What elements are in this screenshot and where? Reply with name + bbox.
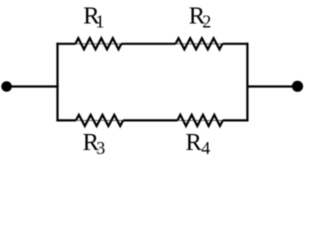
wire top: R2 to right rail bbox=[222, 43, 248, 45]
wire thin lead line under R1 bbox=[75, 43, 121, 45]
wire right stub from right rail to terminal bbox=[247, 85, 297, 87]
resistor R1 (zigzag) bbox=[75, 38, 121, 49]
node A (left terminal dot) bbox=[1, 81, 12, 92]
resistor R2 (zigzag) bbox=[176, 38, 223, 49]
wire top: between R1 and R2 bbox=[121, 43, 175, 45]
wire left stub from terminal to left rail bbox=[7, 85, 59, 87]
wire bottom: left rail to R3 bbox=[56, 119, 76, 121]
svg-text:R: R bbox=[186, 129, 203, 156]
svg-text:4: 4 bbox=[201, 138, 210, 158]
wire thin lead line under R4 bbox=[178, 119, 223, 121]
wire left rail (vertical) bbox=[56, 43, 58, 122]
wire thin lead line under R3 bbox=[76, 119, 123, 121]
wire bottom: between R3 and R4 bbox=[123, 119, 177, 121]
node B (right terminal dot) bbox=[292, 81, 303, 92]
resistor R4 (zigzag) bbox=[178, 115, 223, 126]
svg-text:2: 2 bbox=[202, 12, 211, 32]
wire right rail (vertical) bbox=[246, 43, 248, 122]
svg-text:1: 1 bbox=[96, 12, 105, 32]
svg-text:3: 3 bbox=[96, 138, 105, 158]
resistor R3 (zigzag) bbox=[76, 115, 123, 126]
wire bottom: R4 to right rail bbox=[223, 119, 249, 121]
wire top: left rail to R1 bbox=[56, 43, 75, 45]
wire thin lead line under R2 bbox=[176, 43, 223, 45]
